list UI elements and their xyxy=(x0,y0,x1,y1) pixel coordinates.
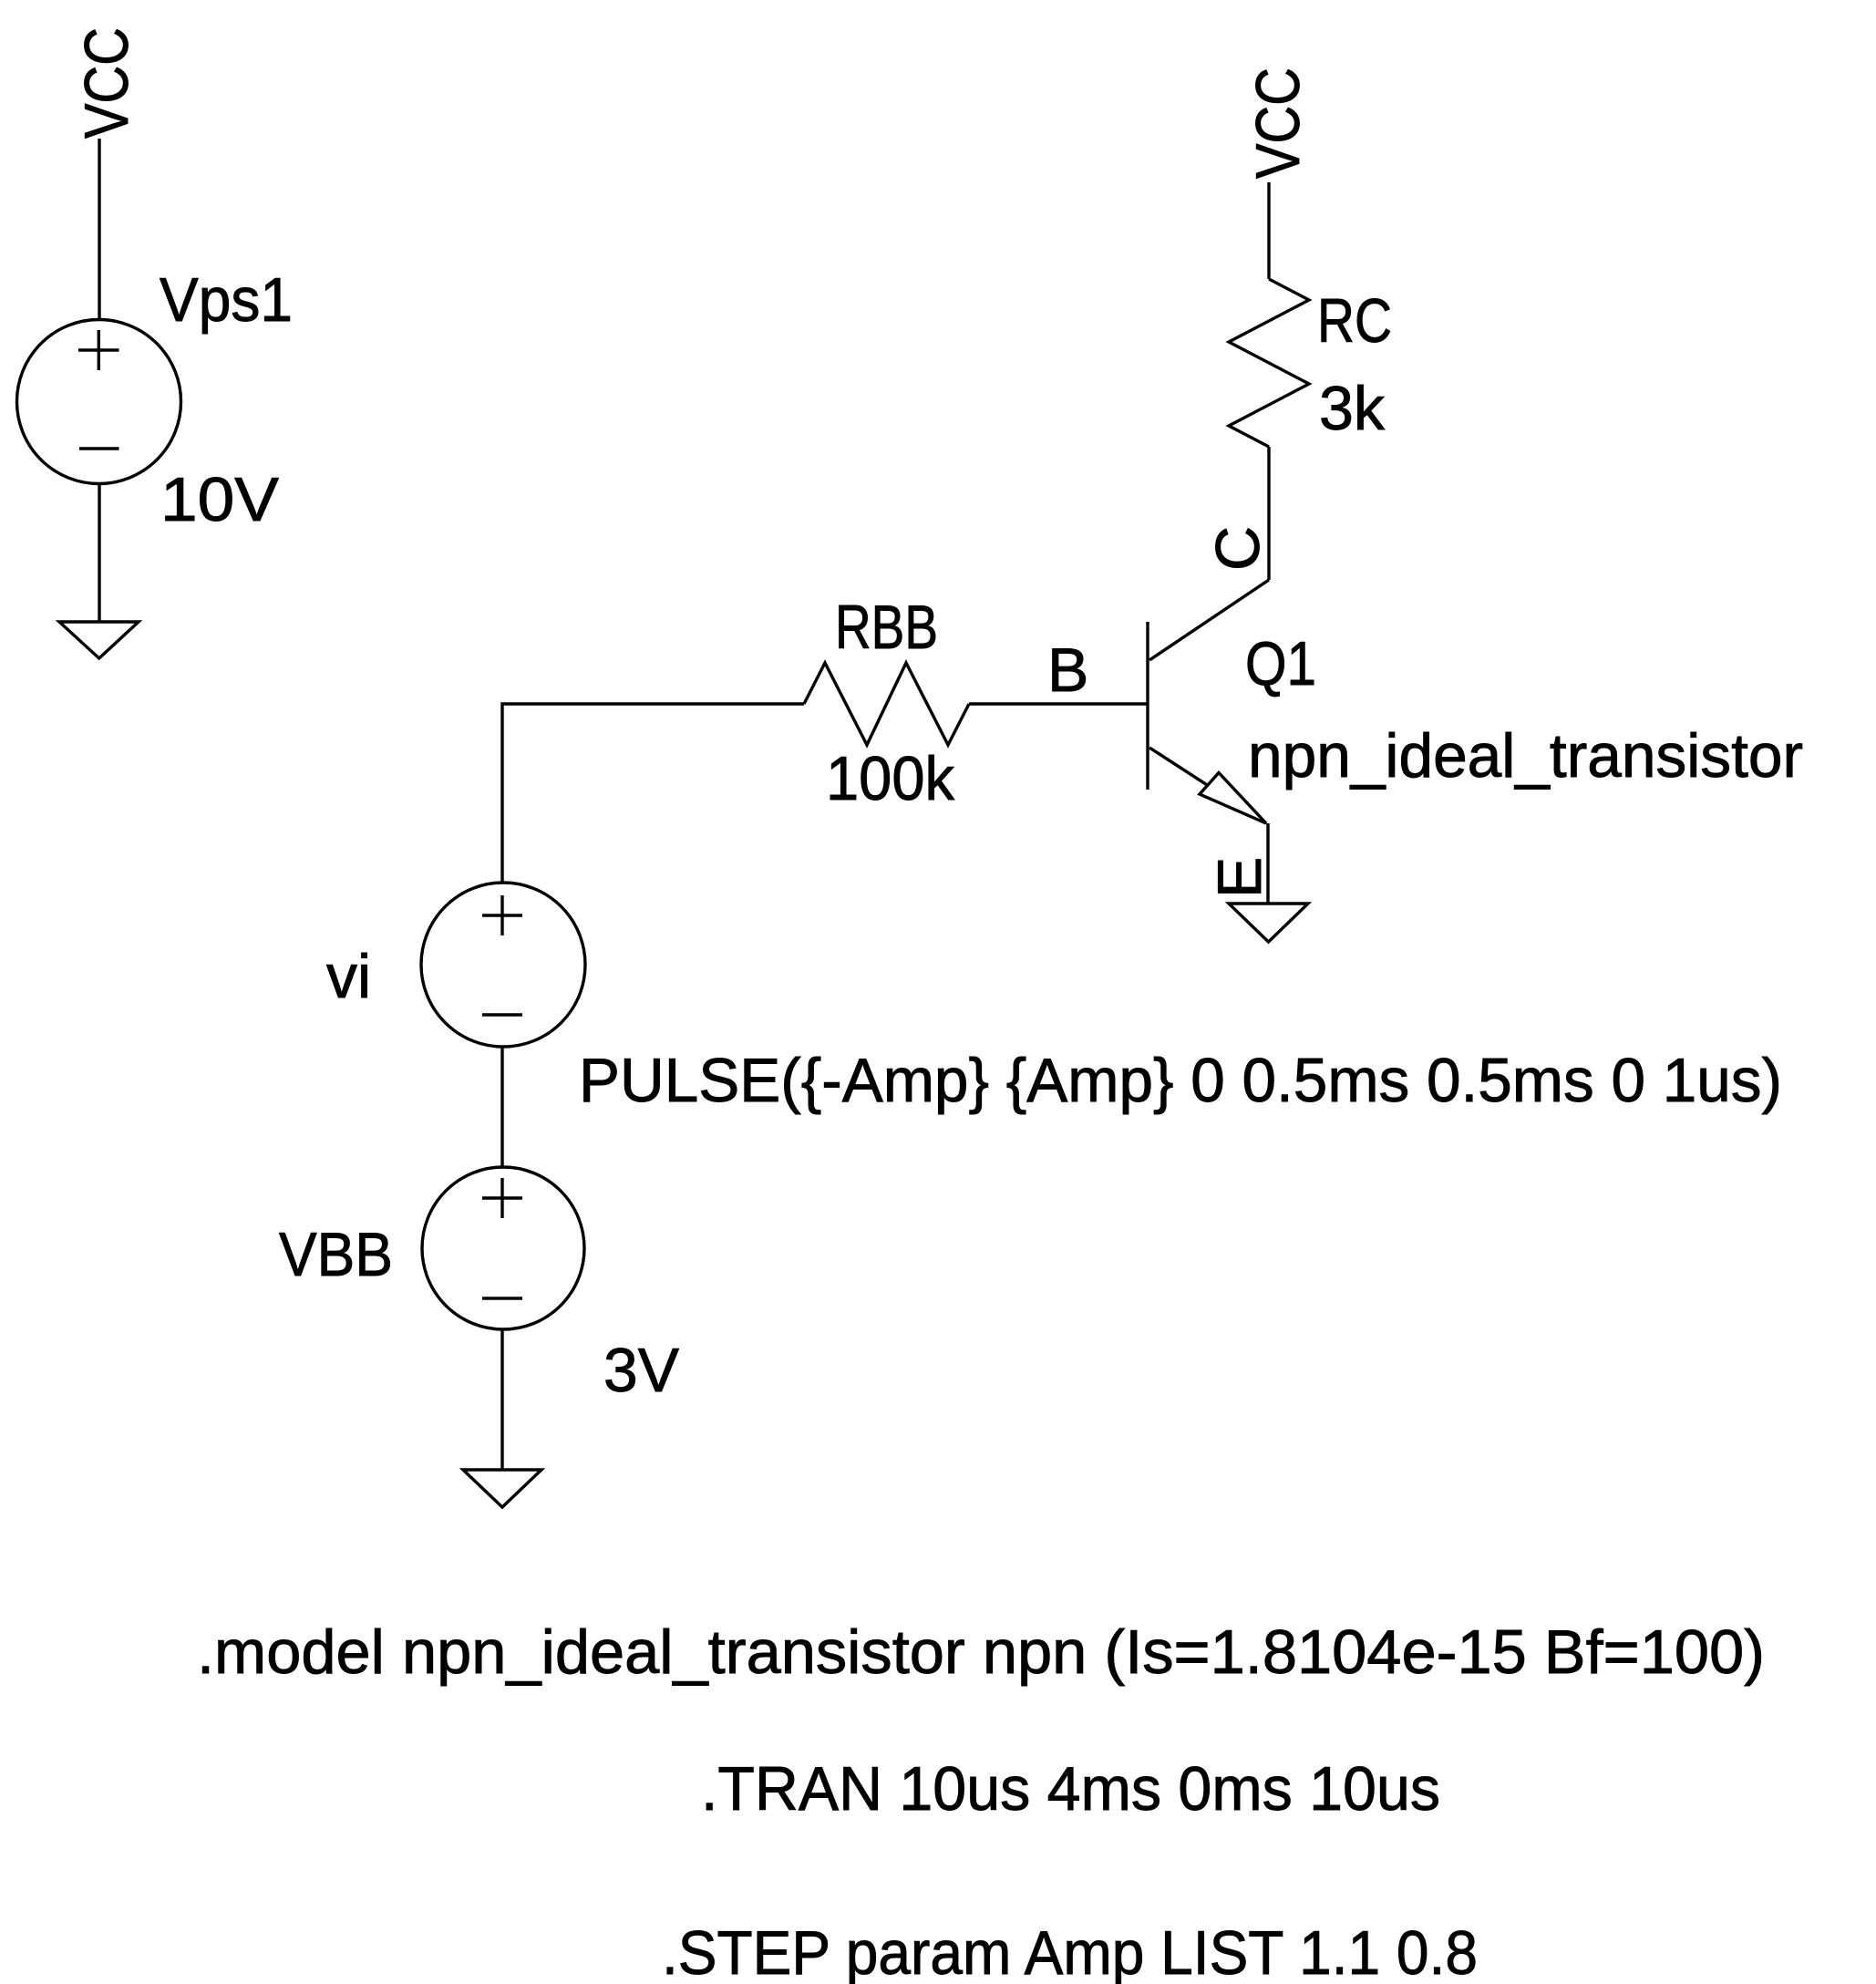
ground (Vps1) xyxy=(59,622,139,658)
svg-text:10V: 10V xyxy=(160,465,280,534)
svg-text:.STEP param Amp LIST 1.1 0.8: .STEP param Amp LIST 1.1 0.8 xyxy=(662,1918,1478,1984)
resistor RC xyxy=(1229,279,1309,447)
resistor RBB xyxy=(804,663,969,745)
svg-text:VBB: VBB xyxy=(279,1220,393,1289)
svg-text:3k: 3k xyxy=(1319,374,1386,443)
svg-text:E: E xyxy=(1205,857,1274,898)
transistor Q1 emitter lead xyxy=(1149,748,1266,823)
transistor Q1 emitter arrow xyxy=(1200,773,1266,824)
voltage source VBB xyxy=(422,1167,584,1329)
voltage source Vps1 xyxy=(17,320,181,484)
svg-text:VCC: VCC xyxy=(72,27,141,139)
svg-text:RBB: RBB xyxy=(835,593,938,662)
svg-text:VCC: VCC xyxy=(1243,67,1313,179)
wire RBB to base xyxy=(969,702,1148,705)
svg-text:100k: 100k xyxy=(826,744,955,813)
voltage source vi xyxy=(421,883,585,1047)
svg-text:B: B xyxy=(1047,635,1088,705)
svg-text:.TRAN 10us 4ms 0ms 10us: .TRAN 10us 4ms 0ms 10us xyxy=(701,1754,1440,1824)
ground (emitter) xyxy=(1229,904,1308,942)
wire vi to VBB xyxy=(500,1047,503,1167)
wire VBB to ground xyxy=(500,1329,503,1470)
wire VCC to RC xyxy=(1267,182,1270,279)
wire VCC to Vps1 plus xyxy=(98,139,100,320)
wire RC to collector xyxy=(1267,447,1270,580)
wire emitter to ground xyxy=(1266,823,1269,904)
wire Vps1 minus to ground xyxy=(98,483,100,622)
svg-text:PULSE({-Amp} {Amp} 0 0.5ms 0.5: PULSE({-Amp} {Amp} 0 0.5ms 0.5ms 0 1us) xyxy=(579,1046,1782,1115)
svg-text:RC: RC xyxy=(1317,286,1392,356)
svg-text:.model npn_ideal_transistor np: .model npn_ideal_transistor npn (Is=1.81… xyxy=(197,1617,1765,1687)
svg-text:vi: vi xyxy=(326,942,371,1011)
svg-text:Vps1: Vps1 xyxy=(160,265,293,335)
transistor Q1 base bar xyxy=(1146,622,1149,790)
svg-text:Q1: Q1 xyxy=(1245,629,1316,698)
svg-text:npn_ideal_transistor: npn_ideal_transistor xyxy=(1248,721,1803,790)
ground (VBB) xyxy=(463,1470,541,1507)
svg-text:3V: 3V xyxy=(603,1336,680,1405)
svg-text:C: C xyxy=(1203,526,1273,571)
transistor Q1 collector lead xyxy=(1149,580,1269,660)
wire vi top corner to RBB xyxy=(502,704,804,883)
